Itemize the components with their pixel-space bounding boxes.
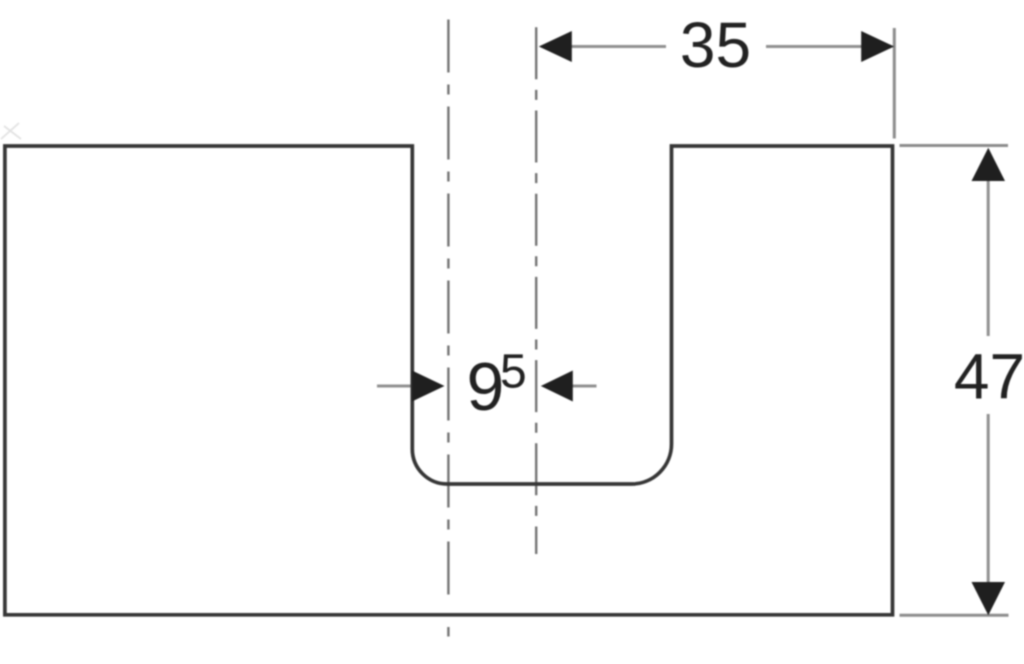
svg-text:9: 9 — [467, 349, 505, 425]
svg-text:47: 47 — [954, 341, 1024, 413]
svg-text:35: 35 — [680, 9, 751, 81]
svg-text:5: 5 — [500, 346, 527, 399]
